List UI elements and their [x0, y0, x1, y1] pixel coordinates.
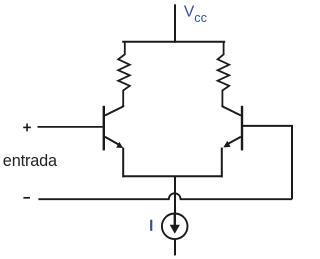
wire emitter join — [122, 175, 222, 177]
wire emitter join to current source — [174, 176, 176, 213]
wire Vcc supply lead — [174, 4, 176, 42]
resistor R1 — [118, 42, 130, 107]
transistor Q1 — [104, 105, 123, 177]
svg-text:Vcc: Vcc — [184, 4, 208, 25]
wire top rail — [122, 41, 225, 43]
wire bottom lead — [174, 239, 176, 256]
resistor R2 — [218, 42, 230, 107]
+ label — [23, 124, 31, 132]
− label — [23, 197, 30, 199]
svg-text:entrada: entrada — [3, 152, 58, 170]
I label — [150, 220, 152, 231]
wire − input with hop over tail — [38, 193, 292, 199]
wire Q2 base feedback — [243, 126, 292, 199]
transistor Q2 — [222, 105, 242, 177]
current source I1 — [162, 213, 188, 239]
wire + input to Q1 base — [38, 126, 103, 128]
